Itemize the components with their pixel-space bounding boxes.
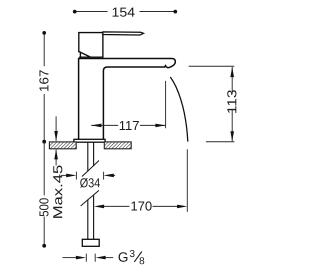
dimension 500 (left vertical lower) bbox=[43, 142, 45, 246]
faucet lever handle block bbox=[79, 33, 103, 58]
dimension Max.45 (counter thickness) bbox=[55, 116, 57, 141]
countertop slab left (hatched) bbox=[49, 142, 76, 149]
extension line below spout outlet bbox=[165, 81, 167, 128]
countertop slab right (hatched) bbox=[104, 142, 131, 149]
dimension 170 (projection below) bbox=[102, 205, 180, 207]
pipe break slash lower bbox=[81, 190, 99, 206]
shank pipe upper segment bbox=[88, 142, 94, 171]
pipe break slash upper bbox=[82, 161, 99, 177]
faucet body and spout outline bbox=[79, 58, 176, 139]
water stream arc bbox=[170, 77, 188, 142]
faucet base flange bbox=[74, 139, 105, 142]
connection nut G3/8 bbox=[82, 239, 99, 246]
dimension Ø34 (hole diameter) bbox=[61, 172, 115, 180]
dimension 113 (right vertical) bbox=[189, 65, 235, 67]
shank pipe lower segment bbox=[88, 195, 94, 239]
dimension 117 (spout reach) bbox=[91, 124, 165, 126]
dimension 154 (top) bbox=[75, 11, 176, 13]
label G 3/8 bbox=[119, 250, 145, 264]
dimension 167 (left vertical) bbox=[43, 33, 45, 142]
dimension G 3/8 (thread) bbox=[63, 254, 114, 262]
faucet lever blade bbox=[103, 32, 144, 35]
extension line for 170 bbox=[186, 149, 188, 212]
